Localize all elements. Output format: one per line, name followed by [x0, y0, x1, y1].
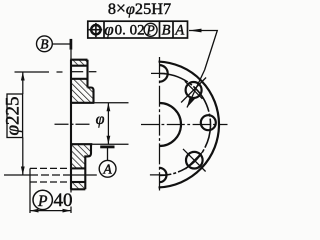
svg-text:8×φ25H7: 8×φ25H7 — [108, 0, 171, 18]
svg-text:40: 40 — [54, 190, 73, 211]
svg-text:P: P — [37, 193, 48, 210]
svg-text:φ225: φ225 — [3, 96, 24, 135]
svg-text:A: A — [102, 162, 112, 177]
svg-text:0. 02: 0. 02 — [115, 22, 145, 38]
svg-text:φ: φ — [96, 111, 105, 128]
svg-text:P: P — [145, 23, 154, 38]
svg-text:B: B — [40, 37, 48, 52]
svg-text:φ: φ — [104, 20, 113, 39]
svg-text:B: B — [162, 23, 171, 39]
svg-text:A: A — [174, 23, 184, 39]
